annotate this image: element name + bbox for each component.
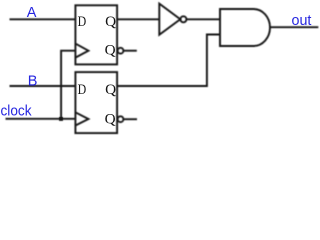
D flip-flop FF1 Qbar bubble xyxy=(118,48,124,54)
inverter U2 bubble xyxy=(180,16,186,22)
svg-text:Q: Q xyxy=(105,14,116,30)
wire input B xyxy=(10,85,76,87)
svg-text:Q: Q xyxy=(105,111,116,127)
svg-text:clock: clock xyxy=(1,104,33,120)
D flip-flop FF2 Qbar bubble xyxy=(118,116,124,122)
D flip-flop FF1 box xyxy=(75,5,117,64)
svg-text:Q: Q xyxy=(105,82,116,98)
wire FF1 Q to inverter U2 input xyxy=(117,18,159,20)
wire clock branch to FF1 clock (vertical + horizontal) xyxy=(61,51,75,119)
junction dot clock node xyxy=(59,117,63,121)
D flip-flop FF2 clock triangle xyxy=(75,112,88,125)
wire FF2 Q to AND U3 bottom input xyxy=(117,35,220,87)
wire inverter U2 output to AND U3 top input xyxy=(186,18,220,20)
AND gate U3 body xyxy=(220,9,270,46)
svg-text:B: B xyxy=(28,73,38,89)
inverter U2 triangle xyxy=(159,4,180,35)
svg-text:D: D xyxy=(78,82,87,98)
wire input A xyxy=(10,18,76,20)
wire clock xyxy=(6,118,76,120)
svg-text:A: A xyxy=(27,5,37,21)
D flip-flop FF2 box xyxy=(75,72,117,133)
svg-text:Q: Q xyxy=(105,43,116,59)
svg-text:D: D xyxy=(78,14,87,30)
wire FF2 Qbar stub xyxy=(124,118,137,120)
svg-text:out: out xyxy=(292,13,312,29)
wire FF1 Qbar stub xyxy=(124,50,137,52)
D flip-flop FF1 clock triangle xyxy=(75,44,88,58)
wire AND U3 output to out xyxy=(270,26,318,28)
